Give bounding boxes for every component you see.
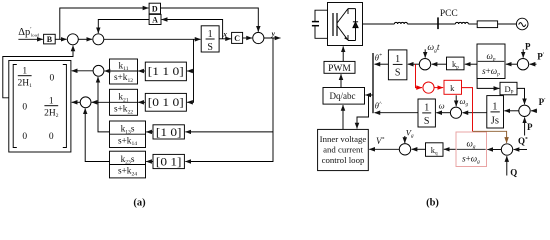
svg-text:s+k22: s+k22 — [114, 105, 133, 116]
wire S2 to integrator — [104, 38, 201, 40]
P input stub lower — [524, 117, 526, 135]
svg-text:ωgt: ωgt — [427, 43, 439, 54]
wire S5 to matrix H — [72, 101, 81, 103]
svg-text:C: C — [234, 34, 240, 43]
svg-text:y: y — [271, 29, 276, 38]
block B — [44, 34, 56, 44]
svg-text:P′: P′ — [539, 97, 547, 107]
P input stub upper — [522, 49, 524, 57]
wire S1 to S2 — [78, 38, 92, 40]
summer S4 — [253, 32, 264, 43]
svg-text:[1 1 0]: [1 1 0] — [148, 66, 184, 78]
IGBT gate bars — [332, 13, 334, 36]
svg-text:ωg: ωg — [466, 139, 475, 151]
w0t input stub — [424, 49, 426, 57]
svg-text:P′: P′ — [537, 52, 545, 62]
svg-text:k13s: k13s — [121, 125, 135, 136]
wire k11 to S3 — [105, 70, 110, 72]
converter box — [328, 3, 363, 46]
svg-text:PWM: PWM — [328, 64, 351, 74]
wire S3 to matrix H — [72, 70, 93, 72]
wire wrap to inner loop — [357, 96, 369, 129]
IGBT collector diagonal — [337, 9, 348, 23]
svg-text:2H2: 2H2 — [44, 108, 59, 119]
fraction bars 1/2H1 1/2H2 — [18, 75, 32, 77]
block C — [232, 32, 243, 43]
wire x branch to A — [162, 20, 223, 39]
block wg/(s+wg) red — [456, 132, 487, 167]
svg-text:ω: ω — [439, 101, 445, 111]
diode branch — [355, 9, 357, 41]
svg-text:1: 1 — [49, 96, 54, 106]
svg-text:Vg: Vg — [406, 127, 414, 139]
wire y output — [264, 37, 281, 39]
svg-text:Q: Q — [510, 168, 517, 178]
wire DP to P-summer lower — [517, 88, 525, 104]
red wire k to corner — [462, 88, 473, 132]
P' input arrow upper — [530, 63, 537, 65]
block PWM — [324, 61, 355, 73]
svg-text:x: x — [222, 30, 227, 39]
P' input arrow lower — [531, 110, 537, 112]
svg-text:S: S — [207, 42, 213, 53]
summer Q — [501, 144, 512, 155]
Q input stub — [506, 156, 508, 175]
svg-text:[0 1 0]: [0 1 0] — [148, 97, 184, 109]
svg-text:1: 1 — [424, 102, 429, 113]
svg-text:k11: k11 — [118, 61, 128, 72]
wire P-summer to wp-filter — [506, 63, 517, 65]
matrix block [1 1 0] — [145, 62, 186, 81]
wire kp to summer — [432, 63, 447, 65]
svg-text:s+k24: s+k24 — [118, 167, 137, 178]
brown wire to Q-summer top — [473, 131, 507, 143]
summer S3 — [93, 65, 104, 76]
svg-text:1: 1 — [208, 29, 213, 40]
summer P lower — [519, 105, 530, 116]
block k21/(s+k22) — [110, 89, 138, 115]
svg-text:and current: and current — [323, 144, 363, 154]
svg-text:s+k12: s+k12 — [114, 73, 133, 84]
svg-text:0: 0 — [49, 132, 54, 142]
block 1/Js — [487, 96, 504, 128]
svg-text:0: 0 — [22, 132, 27, 142]
summer S1 — [67, 34, 78, 45]
svg-text:s+ωg: s+ωg — [462, 153, 480, 165]
svg-text:[0 1]: [0 1] — [156, 157, 182, 169]
summer S2 — [93, 34, 104, 45]
grid source circle — [516, 18, 528, 30]
wire [01] to k23s — [146, 161, 153, 163]
svg-text:[1 0]: [1 0] — [156, 127, 182, 139]
wire inner loop to Dqabc — [342, 105, 344, 129]
svg-text:P: P — [527, 122, 533, 132]
svg-text:V*: V* — [376, 136, 385, 146]
svg-text:Js: Js — [491, 115, 499, 126]
wire 1/Js to w-summer — [463, 112, 487, 114]
wire x to C — [219, 38, 231, 40]
wire xdot down-feed — [187, 39, 193, 102]
wire branch up to D — [60, 8, 149, 39]
block k11/(s+k12) — [110, 59, 138, 84]
matrix left bracket — [13, 65, 17, 148]
wire V* to inner loop — [369, 148, 399, 150]
wire theta* from integrator — [375, 63, 389, 65]
svg-text:s+k14: s+k14 — [118, 136, 137, 147]
svg-text:0: 0 — [50, 73, 55, 83]
svg-text:2H1: 2H1 — [18, 78, 33, 89]
red block k — [444, 80, 462, 94]
integrator 1/S top — [388, 50, 407, 80]
summer S5 — [80, 97, 91, 108]
wire kq to V-summer — [412, 148, 426, 150]
svg-text:1: 1 — [492, 101, 497, 112]
matrix block [0 1] — [153, 154, 184, 168]
summer w0t — [419, 58, 430, 69]
svg-text:(a): (a) — [133, 198, 146, 209]
block Dq/abc — [323, 88, 365, 105]
wire D to S4 top — [161, 8, 259, 32]
ac line to inductor — [363, 23, 395, 25]
block k13s/(s+k14) — [110, 121, 146, 148]
svg-text:θ*: θ* — [375, 53, 382, 63]
wire P-summer to 1/Js — [504, 110, 518, 112]
svg-text:s+ωp: s+ωp — [482, 66, 500, 78]
red summer — [423, 82, 434, 93]
integrator 1/S — [201, 26, 219, 52]
wire y feedback down — [185, 38, 273, 162]
matrix right bracket — [63, 65, 67, 148]
summer P upper — [517, 58, 528, 69]
matrix block [0 1 0] — [145, 93, 186, 111]
svg-text:Inner voltage: Inner voltage — [320, 134, 367, 144]
wire Dqabc to PWM — [340, 74, 342, 87]
wire C to S4 — [243, 37, 252, 39]
wire k23s riser to S5 — [85, 108, 109, 161]
summer V — [399, 144, 410, 155]
block kq — [426, 143, 444, 157]
wire [10] to k13s — [146, 131, 153, 133]
wire wp-filter bottom to DP — [477, 79, 499, 89]
svg-text:k: k — [450, 83, 455, 93]
svg-text:k23s: k23s — [121, 155, 135, 166]
wire A to S2 top — [98, 20, 149, 34]
svg-text:kq: kq — [431, 145, 438, 157]
theta bus line — [372, 53, 374, 113]
svg-text:ωp: ωp — [486, 51, 495, 63]
wire summer to 1/S — [408, 63, 420, 65]
wire matrix wrap to S1 — [3, 46, 73, 98]
V0 input stub — [404, 136, 406, 143]
inductor L2 — [455, 22, 468, 24]
node dp_load input arrow — [18, 38, 42, 40]
svg-text:Q*: Q* — [518, 136, 528, 146]
svg-text:(b): (b) — [426, 198, 439, 209]
svg-text:DP: DP — [505, 84, 514, 96]
PCC bus tick — [437, 17, 439, 29]
svg-text:P: P — [525, 41, 531, 51]
wire wg-filter to kq — [444, 148, 456, 150]
integrator 1/S bottom — [418, 99, 435, 127]
wire wp-filter to kp — [465, 63, 477, 65]
block D — [149, 3, 160, 14]
svg-text:PCC: PCC — [440, 9, 458, 19]
dc-link capacitor — [315, 10, 328, 21]
wire branch to C110 — [187, 70, 193, 72]
svg-text:Δp′load: Δp′load — [18, 27, 39, 38]
svg-text:k21: k21 — [118, 93, 128, 104]
wire k13s riser to S3 — [98, 77, 110, 132]
block A — [149, 14, 161, 24]
svg-text:1: 1 — [22, 66, 27, 76]
w0 input stub — [455, 95, 457, 106]
svg-text:B: B — [47, 35, 53, 44]
matrix block [1 0] — [153, 125, 184, 139]
svg-text:D: D — [152, 4, 158, 13]
wire B to S1 — [55, 38, 66, 40]
svg-text:A: A — [152, 15, 158, 24]
svg-text:θ^: θ^ — [375, 101, 382, 111]
summer w0 — [450, 107, 461, 118]
red tap from theta* wire — [416, 64, 423, 87]
matrix block 1/2H — [9, 61, 71, 153]
svg-text:ωg: ωg — [460, 96, 469, 108]
wire k21 to S5 — [92, 101, 110, 103]
svg-text:0: 0 — [22, 102, 27, 112]
line to PCC — [407, 23, 455, 25]
wire branch to C10 — [185, 131, 273, 133]
Q* input arrow — [514, 149, 527, 151]
block k23s/(s+k24) — [110, 151, 146, 178]
block kp — [447, 57, 465, 70]
svg-text:Dq/abc: Dq/abc — [330, 91, 356, 101]
IGBT emitter diagonal with arrow — [337, 26, 348, 40]
inductor L1 — [394, 22, 407, 24]
svg-text:control loop: control loop — [322, 155, 365, 165]
svg-text:kp: kp — [452, 59, 459, 71]
svg-text:S: S — [424, 116, 430, 127]
block inner voltage and current control loop — [318, 129, 369, 170]
wire theta-hat to bus — [375, 112, 419, 114]
svg-text:S: S — [395, 68, 401, 79]
wire w-summer to 1/S bottom — [436, 112, 450, 114]
wire [010] to k21 — [138, 101, 145, 103]
wire bus to Dqabc — [365, 94, 373, 96]
wire [110] to k11 — [138, 70, 145, 72]
red wire to k block — [434, 87, 443, 89]
block DP — [500, 82, 517, 95]
block wp/(s+wp) — [477, 44, 505, 79]
svg-text:1: 1 — [395, 54, 400, 65]
wire Q-summer to wg-filter — [487, 149, 501, 151]
line impedance rect — [477, 21, 497, 28]
wire PWM to converter — [342, 46, 344, 61]
